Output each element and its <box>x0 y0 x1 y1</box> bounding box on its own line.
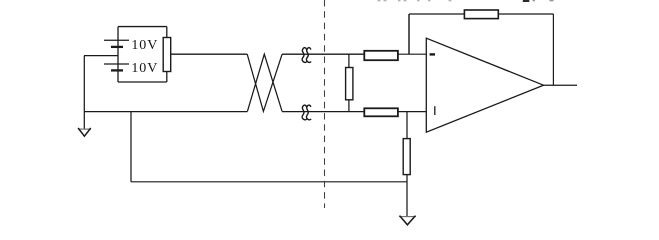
ground (receiver side) <box>399 216 416 225</box>
resistor (bottom series input) <box>364 108 398 116</box>
resistor (source internal resistance, on box right edge) <box>163 38 171 72</box>
break mark on top conductor <box>302 48 311 63</box>
boundary dashed line <box>324 0 326 208</box>
resistor (line termination, between conductors) <box>346 68 353 100</box>
op-amp U1 <box>426 38 543 132</box>
wire: left ground rail vertical <box>83 56 85 129</box>
wire: feedback top run (right) <box>499 13 554 15</box>
op-amp non-inverting input marker <box>434 106 436 115</box>
break mark on bottom conductor <box>302 105 311 120</box>
source box bottom wire <box>118 81 167 83</box>
resistor (bias to ground) <box>403 139 410 175</box>
source box top wire <box>118 26 167 28</box>
wire: top line conductor (source to twist) <box>171 53 248 55</box>
wire: non-inverting input <box>399 111 427 113</box>
cut-off text remnants (top edge) <box>378 0 554 2</box>
wire: output <box>544 84 578 86</box>
ground (source side) <box>78 128 91 136</box>
svg-text:10V: 10V <box>131 38 158 53</box>
battery B2 value label 10V <box>131 61 158 76</box>
wire: bottom return run to receiver ground <box>131 181 407 183</box>
wire: drop from bottom conductor to return run <box>130 112 132 182</box>
svg-text:10V: 10V <box>131 61 158 76</box>
wire: battery midpoint tap to ground rail <box>84 55 118 57</box>
op-amp inverting input marker <box>430 53 435 55</box>
battery B1 value label 10V <box>131 38 158 53</box>
wire: top conductor after twist <box>282 53 364 55</box>
twisted-pair crossing (conductor A) <box>247 54 282 111</box>
wire: stub top of line-termination resistor <box>348 54 350 68</box>
resistor (top series input) <box>364 51 398 60</box>
battery B1 (upper 10V cell) <box>104 40 129 47</box>
twisted-pair crossing (conductor B) <box>247 54 282 111</box>
wire: bottom line conductor (ground rail to twist) <box>84 111 247 113</box>
wire: feedback top run (left) <box>409 13 464 15</box>
wire: stub bottom of line-termination resistor <box>348 100 350 112</box>
wire: bias resistor to ground <box>406 175 408 216</box>
wire: bias resistor drop from non-inverting input <box>406 112 408 139</box>
battery B2 (lower 10V cell) <box>104 64 129 70</box>
battery stack axis (source box left edge) <box>117 27 119 82</box>
resistor (feedback) <box>464 10 498 19</box>
wire: feedback left vertical <box>408 14 410 54</box>
wire: bottom conductor after twist <box>282 111 364 113</box>
source box right edge wire <box>166 27 168 82</box>
wire: inverting input <box>399 53 427 55</box>
wire: feedback right vertical to output <box>552 14 554 85</box>
